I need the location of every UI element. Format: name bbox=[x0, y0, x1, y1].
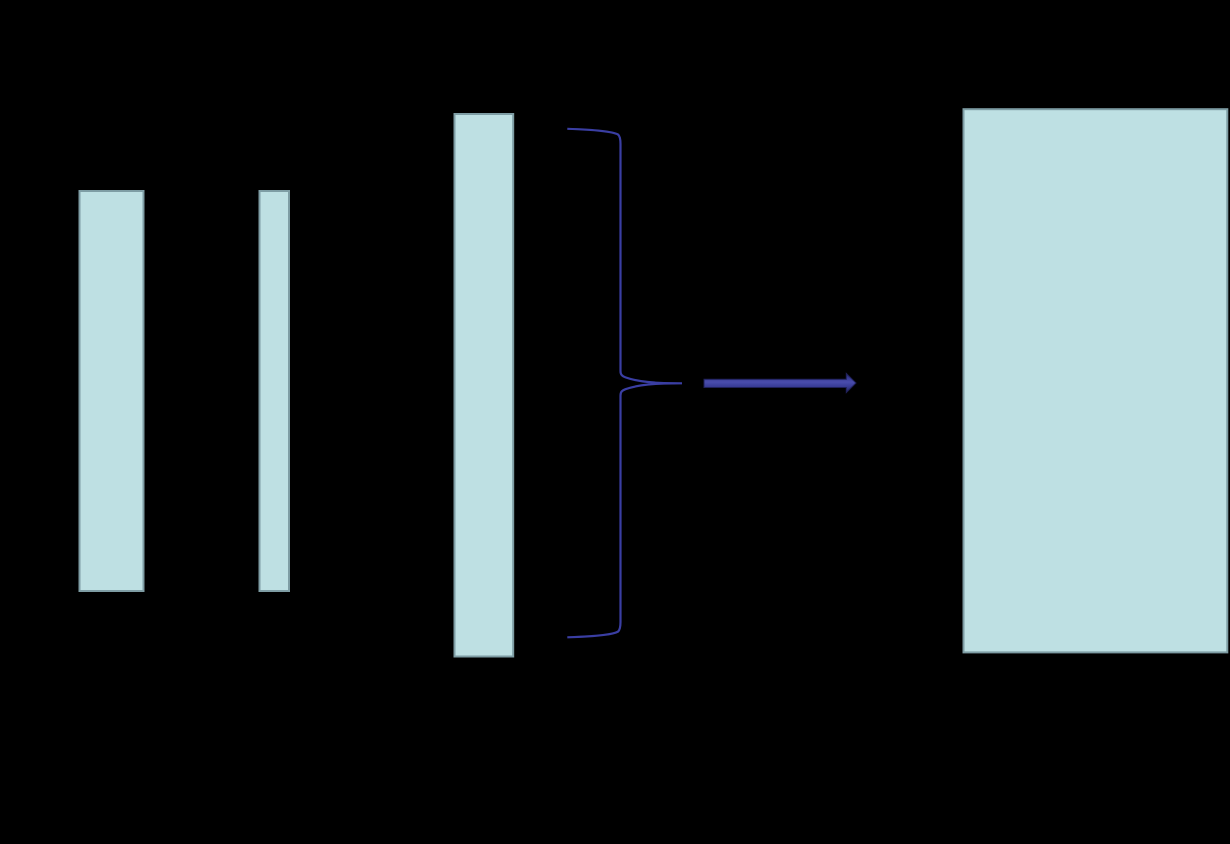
block bar 2 (second narrow light-blue rectangle) bbox=[260, 191, 290, 591]
big block (large light-blue rectangle on the right) bbox=[964, 109, 1228, 652]
block bar 1 (left tall thin light-blue rectangle) bbox=[80, 191, 144, 591]
arrow (thick navy right-pointing arrow) bbox=[704, 374, 856, 393]
right brace (curly bracket grouping the bars) bbox=[567, 129, 682, 638]
block bar 3 (third taller light-blue rectangle) bbox=[455, 114, 514, 657]
